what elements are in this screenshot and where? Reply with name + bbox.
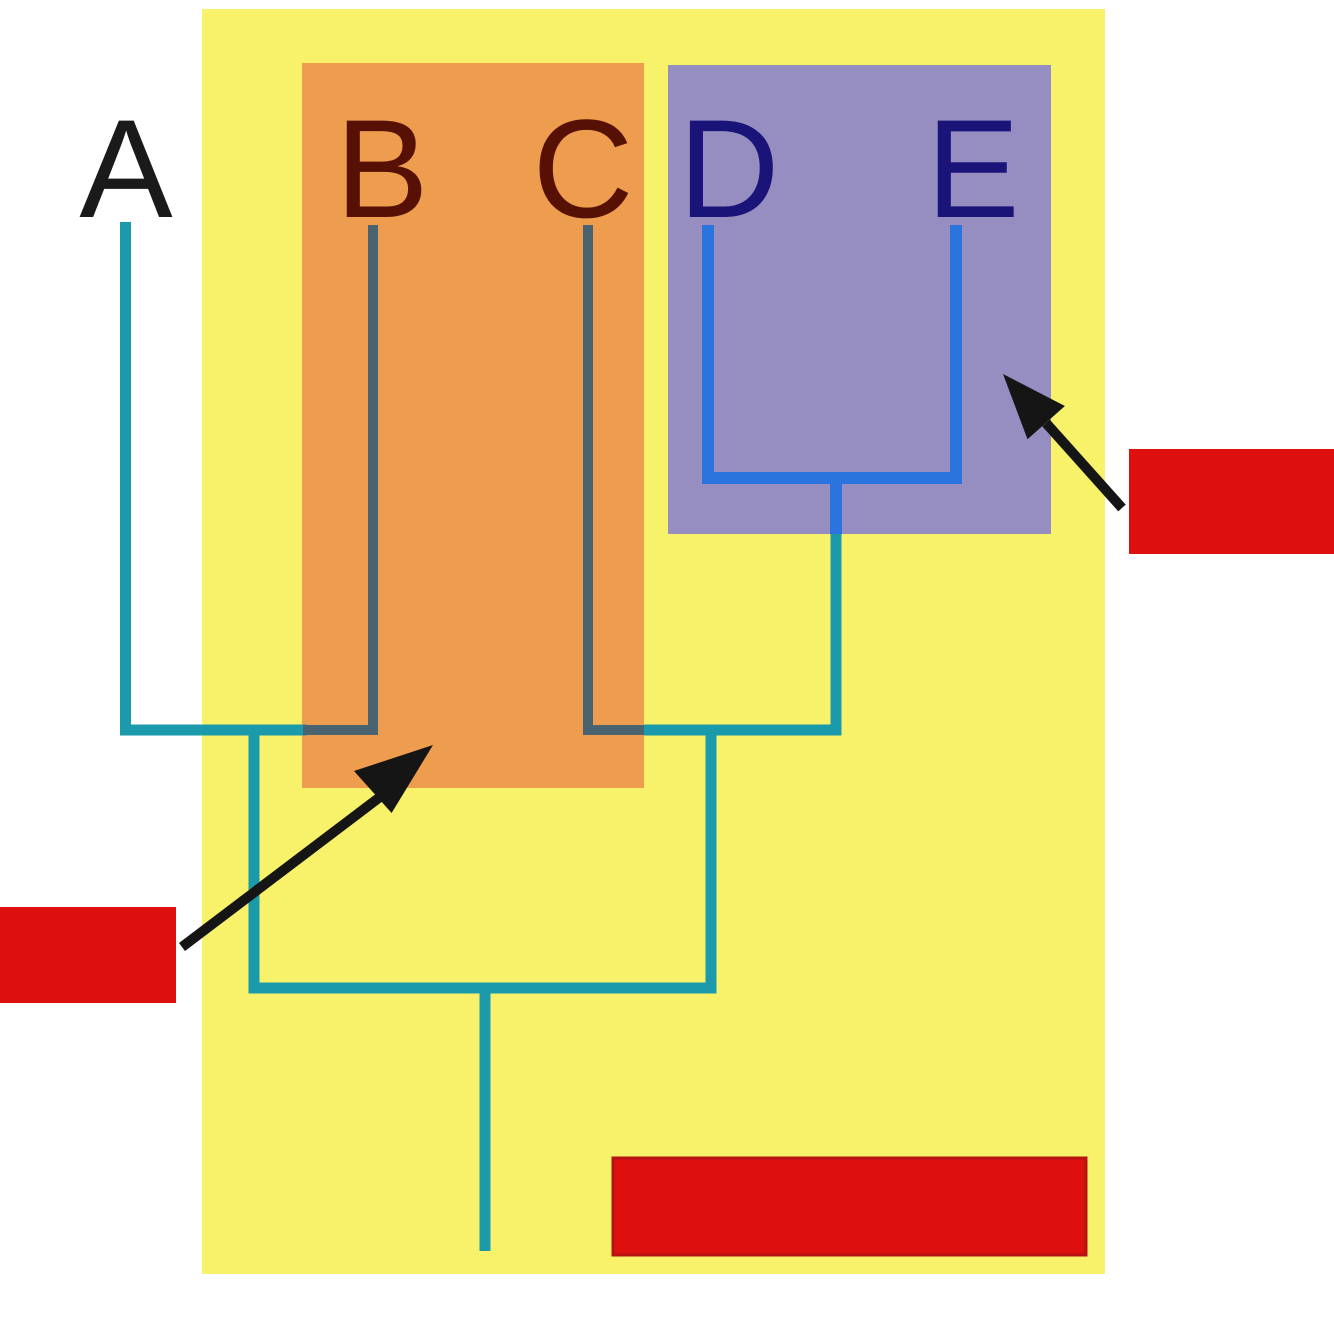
svg-text:A: A xyxy=(79,90,173,247)
red answer box right (D+E clade label) xyxy=(1129,449,1334,554)
yellow outer group box (whole tree) xyxy=(202,9,1105,1274)
svg-text:B: B xyxy=(335,90,428,247)
D-E clade stem lower part (teal) xyxy=(831,534,842,736)
D-E clade U (blue) xyxy=(708,225,956,478)
horizontal node 2 connector (teal) from orange edge to D-E stem xyxy=(644,725,842,736)
D-E clade stem upper part (blue) xyxy=(830,474,842,534)
branch A (teal) with horizontal to node 1 xyxy=(126,222,308,730)
arrow to purple clade (black) xyxy=(1003,374,1122,508)
purple group box (D+E clade) xyxy=(668,65,1051,534)
orange group box (B+C) xyxy=(302,63,644,788)
red answer box left (B+C group label) xyxy=(0,907,176,1003)
root stem (teal) xyxy=(480,990,491,1251)
branch B (gray) with horizontal to orange edge xyxy=(303,225,373,730)
root U: descender node1, root bar, descender node2 (teal) xyxy=(254,726,711,988)
arrow to orange group (black) xyxy=(182,745,433,947)
svg-text:E: E xyxy=(926,90,1019,247)
svg-text:C: C xyxy=(532,90,633,247)
red answer box bottom (whole tree label) xyxy=(613,1158,1086,1255)
branch C (gray) with horizontal to orange edge xyxy=(588,225,646,730)
svg-text:D: D xyxy=(678,90,779,247)
